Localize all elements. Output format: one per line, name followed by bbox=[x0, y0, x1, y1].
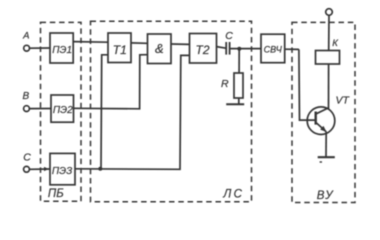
svg-text:ПБ: ПБ bbox=[48, 188, 64, 200]
svg-text:С: С bbox=[23, 151, 31, 163]
svg-text:ПЭЗ: ПЭЗ bbox=[52, 166, 72, 177]
svg-text:ЛС: ЛС bbox=[222, 189, 242, 201]
svg-text:ПЭ2: ПЭ2 bbox=[53, 105, 73, 116]
svg-text:Т2: Т2 bbox=[196, 43, 210, 57]
svg-text:К: К bbox=[332, 38, 339, 49]
svg-text:А: А bbox=[22, 30, 29, 41]
svg-text:Т1: Т1 bbox=[113, 43, 127, 57]
svg-text:В: В bbox=[23, 91, 30, 102]
svg-text:ВУ: ВУ bbox=[317, 190, 334, 202]
svg-text:ПЭ1: ПЭ1 bbox=[52, 45, 72, 56]
svg-text:С: С bbox=[225, 30, 233, 42]
svg-text:СВЧ: СВЧ bbox=[264, 45, 283, 55]
svg-text:R: R bbox=[221, 78, 229, 90]
svg-text:VT: VT bbox=[336, 94, 351, 106]
svg-text:&: & bbox=[155, 41, 164, 56]
